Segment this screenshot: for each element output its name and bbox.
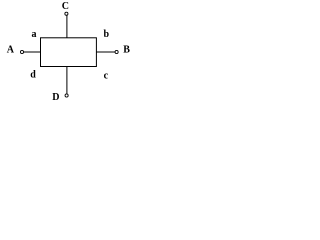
four-terminal network box — [41, 38, 97, 67]
svg-text:A: A — [7, 45, 15, 56]
terminal A (open circle) — [20, 50, 23, 53]
svg-text:b: b — [104, 29, 110, 40]
wire D — [66, 67, 68, 94]
terminal D (open circle) — [65, 94, 68, 97]
svg-text:c: c — [104, 71, 109, 82]
wire C — [66, 15, 68, 38]
svg-text:a: a — [32, 29, 37, 40]
wire A — [24, 51, 41, 53]
svg-text:D: D — [52, 92, 59, 103]
terminal B (open circle) — [115, 50, 118, 53]
svg-text:C: C — [62, 1, 69, 12]
svg-text:B: B — [123, 45, 130, 56]
wire B — [96, 51, 115, 53]
terminal C (open circle) — [65, 12, 68, 15]
svg-text:d: d — [30, 69, 36, 80]
